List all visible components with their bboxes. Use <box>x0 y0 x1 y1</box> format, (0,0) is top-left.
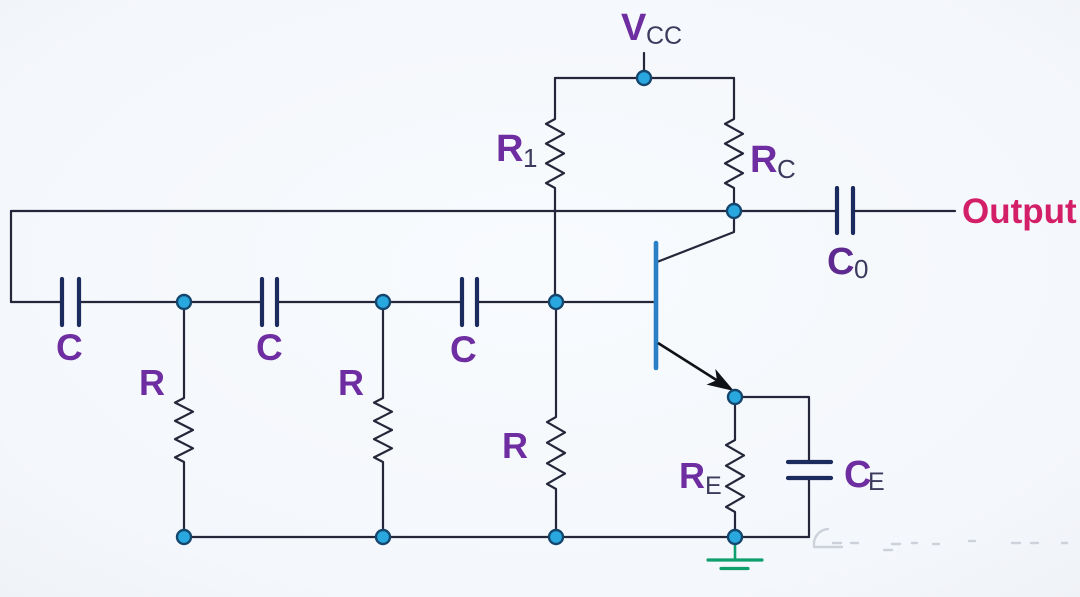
resistor R1 <box>546 78 564 302</box>
wire: output line after C0 <box>853 210 955 212</box>
node collector junction <box>727 204 741 218</box>
wire: VCC stub <box>643 53 645 78</box>
capacitor C (second) <box>262 279 277 325</box>
label VCC <box>621 7 682 50</box>
resistor RC <box>725 78 743 211</box>
svg-text:E: E <box>705 472 722 500</box>
watermark remnants <box>814 529 1067 550</box>
node rail ground <box>728 530 742 544</box>
wire: emitter node to CE branch <box>735 397 809 462</box>
svg-text:Output: Output <box>962 192 1077 231</box>
transistor Q1 base bar <box>654 243 659 368</box>
svg-text:E: E <box>868 468 885 496</box>
ground <box>708 540 762 569</box>
capacitor CE <box>788 462 831 478</box>
svg-text:R: R <box>338 362 364 403</box>
label RE <box>679 455 722 500</box>
svg-text:R: R <box>496 128 523 170</box>
svg-text:0: 0 <box>854 254 868 284</box>
svg-text:V: V <box>621 7 647 49</box>
svg-text:C: C <box>256 327 283 368</box>
resistor R (second ladder shunt) <box>374 302 392 537</box>
node rail 2 <box>376 530 390 544</box>
node rail 1 <box>177 530 191 544</box>
label C0 <box>827 241 868 284</box>
wire: CE bottom lead to rail <box>808 478 810 537</box>
svg-text:C: C <box>827 241 854 283</box>
svg-text:R: R <box>679 455 705 496</box>
wire: RC ladder horizontal line to base <box>11 301 655 303</box>
svg-text:R: R <box>750 139 777 181</box>
wire: collector lead to transistor <box>657 211 734 262</box>
node base junction <box>549 295 563 309</box>
node emitter junction <box>728 390 742 404</box>
capacitor C (third) <box>462 279 477 325</box>
svg-text:1: 1 <box>523 143 537 173</box>
node ladder stage 2 <box>376 295 390 309</box>
svg-text:C: C <box>450 329 477 370</box>
wire: top supply rail <box>555 77 734 79</box>
capacitor C (first) <box>62 279 79 325</box>
node ladder stage 1 <box>177 295 191 309</box>
wire: feedback/output horizontal line y=211 <box>11 210 837 212</box>
resistor RE <box>726 397 744 537</box>
label RC <box>750 139 796 184</box>
resistor R (first ladder shunt) <box>175 302 193 537</box>
capacitor C0 <box>837 188 853 233</box>
svg-text:CC: CC <box>646 22 682 50</box>
wire: bottom ground rail <box>184 536 809 538</box>
node VCC junction <box>637 71 651 85</box>
resistor R (third ladder shunt) <box>547 302 565 537</box>
svg-text:C: C <box>56 327 83 368</box>
label CE <box>844 454 885 496</box>
svg-text:C: C <box>777 154 796 184</box>
transistor Q1 emitter arrow <box>707 369 735 391</box>
svg-text:R: R <box>502 425 528 466</box>
node rail 3 <box>549 530 563 544</box>
wire: left vertical feedback drop <box>10 211 12 302</box>
svg-text:R: R <box>139 362 165 403</box>
label R1 <box>496 128 537 173</box>
transistor Q1 emitter lead <box>658 343 718 381</box>
